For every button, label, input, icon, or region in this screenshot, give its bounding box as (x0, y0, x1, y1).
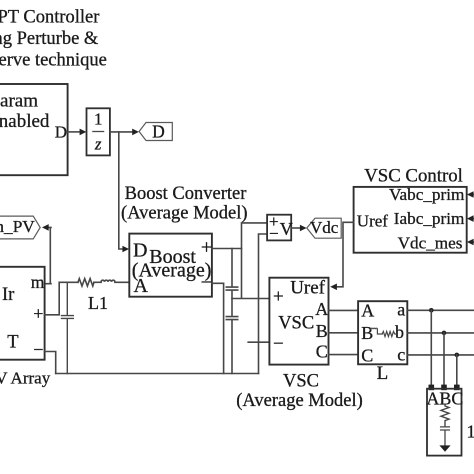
wire: Vabc_prim input from right edge (473, 194, 474, 196)
wire: Boost - output down to bottom bus (212, 283, 224, 373)
svg-text:erve technique: erve technique (0, 51, 107, 71)
load terminal pad B (441, 385, 447, 391)
capacitor C1 across PV terminals (62, 282, 74, 373)
wire: Boost + output to DC link (212, 248, 242, 250)
wire: bottom bus (56, 373, 259, 375)
wire: V measurement to Vdc tag (291, 227, 300, 229)
svg-text:PV Array: PV Array (0, 368, 51, 387)
annotation: MPPT Controller title (cropped at left) (0, 8, 107, 71)
wire: VSC A output to L block (329, 309, 359, 311)
svg-text:B: B (361, 323, 373, 343)
svg-text:A: A (134, 275, 149, 297)
annotation: Boost Converter title (121, 184, 248, 224)
svg-text:A: A (315, 299, 328, 319)
svg-text:m: m (31, 272, 45, 292)
wire: branch from unit delay output down to Boost D input (119, 132, 123, 249)
wire: phase a drop to load (430, 310, 432, 384)
load resistor (441, 405, 449, 426)
wire: phase c drop to load (456, 355, 458, 385)
wire: MPPT D output to unit delay (68, 131, 81, 133)
wire: PV + output up to L1 branch (45, 282, 78, 315)
svg-text:B: B (316, 321, 328, 341)
svg-text:b: b (395, 322, 404, 342)
svg-text:Boost Converter: Boost Converter (125, 184, 247, 204)
svg-text:D: D (152, 122, 165, 142)
svg-text:z: z (94, 134, 102, 153)
svg-text:C: C (316, 342, 328, 362)
svg-text:−: − (201, 271, 212, 293)
svg-text:enabled: enabled (0, 111, 50, 132)
svg-text:−: − (33, 340, 43, 360)
svg-text:VSC Control: VSC Control (364, 165, 463, 186)
svg-text:−: − (269, 224, 279, 243)
svg-text:Ir: Ir (2, 285, 14, 305)
wire: DC link + rail up to voltage measurement and down to VSC + (232, 223, 269, 299)
wire: PV m output up to m_PV tag (45, 227, 51, 283)
wire: PV - output to bottom bus (45, 352, 56, 374)
svg-text:−: − (273, 334, 284, 355)
inductor L1 coil (101, 280, 115, 282)
svg-text:ng Perturbe &: ng Perturbe & (0, 29, 99, 49)
wire: phase b to load (407, 332, 474, 334)
svg-text:T: T (7, 333, 18, 353)
wire: VSC Control Uref output down to VSC Uref input (337, 222, 354, 286)
svg-text:Uref: Uref (357, 212, 388, 231)
resistor of L1 branch (78, 279, 94, 286)
three-phase load block ABC (427, 389, 462, 456)
svg-text:C: C (361, 345, 373, 365)
Boost (Average) converter block (129, 234, 212, 297)
wire: Iabc_prim input from right edge (473, 218, 474, 220)
wire: DC link - rail from voltage measurement to VSC - and bus (248, 234, 269, 374)
svg-text:L: L (377, 363, 389, 384)
svg-text:PT Controller: PT Controller (0, 8, 99, 28)
VSC (Average Model) block (269, 278, 328, 365)
svg-text:1: 1 (94, 110, 103, 129)
svg-text:c: c (397, 345, 405, 365)
wire between resistor and inductor (94, 281, 101, 283)
junction node phase c (455, 353, 460, 358)
PV Array block (cropped at left) (0, 267, 45, 360)
load terminal pad A (429, 385, 435, 391)
svg-text:A: A (361, 300, 374, 320)
svg-text:+: + (273, 286, 284, 307)
subsystem U1: MPPT param enabled block (cropped at left) (0, 84, 68, 175)
goto tag m_PV (cropped at left) (0, 216, 40, 239)
svg-text:L1: L1 (88, 293, 108, 313)
load terminal pad C (454, 385, 460, 391)
svg-text:V: V (280, 219, 293, 239)
svg-text:a: a (397, 299, 405, 319)
goto tag Vdc (307, 218, 341, 238)
annotation: VSC (Average Model) label (236, 371, 363, 411)
svg-text:+: + (201, 236, 212, 258)
three-phase series RL branch block L (358, 301, 407, 364)
wire: VSC C output to L block (329, 354, 359, 356)
svg-text:m_PV: m_PV (0, 217, 35, 236)
VSC Control block (354, 187, 467, 253)
svg-text:Iabc_prim: Iabc_prim (394, 209, 465, 228)
svg-text:+: + (33, 303, 43, 323)
wire: phase a to load (407, 309, 474, 311)
svg-text:10: 10 (467, 422, 474, 442)
svg-text:param: param (0, 91, 38, 112)
svg-text:Vabc_prim: Vabc_prim (389, 185, 465, 204)
junction node phase b (442, 331, 447, 336)
wire: unit delay output (110, 131, 133, 133)
voltage measurement block V (267, 215, 291, 241)
svg-text:(Average Model): (Average Model) (236, 391, 363, 411)
wire: Vdc_mes input from right edge (473, 241, 474, 243)
wire: phase b drop to load (443, 333, 445, 385)
svg-text:Uref: Uref (290, 278, 325, 299)
unit delay block 1/z (87, 108, 110, 155)
inductor icon inside L block (371, 328, 378, 329)
resistor icon inside L block (382, 331, 396, 336)
load capacitor (441, 427, 450, 446)
svg-text:D: D (55, 123, 67, 142)
wire: L1 to Boost A input (115, 281, 129, 283)
junction node phase a (429, 308, 434, 313)
svg-text:D: D (133, 240, 147, 262)
goto tag D (139, 123, 172, 141)
load ground arrow (439, 445, 450, 451)
svg-text:Vdc_mes: Vdc_mes (398, 233, 463, 252)
svg-text:VSC: VSC (283, 371, 319, 391)
svg-text:Vdc: Vdc (310, 218, 339, 237)
wire: VSC B output to L block (329, 332, 359, 334)
svg-text:VSC: VSC (278, 314, 314, 334)
DC link series capacitors C2,C3 (226, 249, 237, 374)
wire: phase c to load (407, 354, 474, 356)
svg-text:(Average Model): (Average Model) (121, 204, 248, 224)
